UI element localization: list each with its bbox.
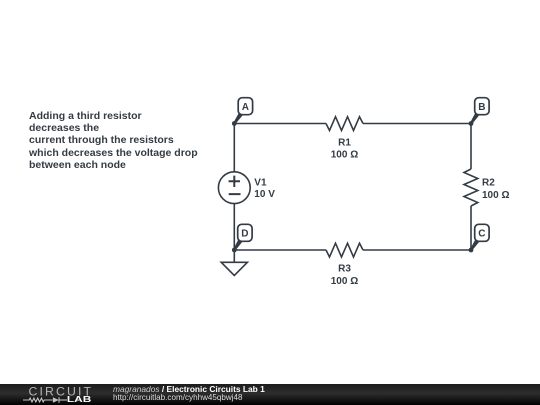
svg-text:A: A xyxy=(242,102,249,113)
svg-text:LAB: LAB xyxy=(67,394,91,404)
svg-text:D: D xyxy=(241,229,248,240)
svg-text:B: B xyxy=(478,102,485,113)
svg-text:10 V: 10 V xyxy=(254,189,275,200)
svg-text:100 Ω: 100 Ω xyxy=(331,276,358,287)
svg-text:R2: R2 xyxy=(482,177,495,188)
svg-text:100 Ω: 100 Ω xyxy=(331,150,358,161)
svg-text:R3: R3 xyxy=(338,264,351,275)
svg-text:100 Ω: 100 Ω xyxy=(482,190,509,201)
svg-text:C: C xyxy=(478,229,485,240)
svg-text:V1: V1 xyxy=(254,177,267,188)
svg-text:R1: R1 xyxy=(338,137,351,148)
